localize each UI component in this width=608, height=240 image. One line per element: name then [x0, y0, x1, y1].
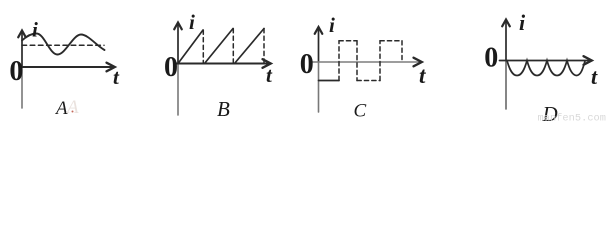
- svg-text:t: t: [419, 63, 426, 88]
- svg-text:0: 0: [9, 56, 23, 87]
- svg-text:t: t: [266, 63, 273, 87]
- svg-text:i: i: [189, 10, 195, 34]
- svg-text:0: 0: [164, 52, 178, 83]
- svg-text:C: C: [354, 101, 367, 122]
- svg-text:0: 0: [484, 43, 498, 74]
- svg-text:manfen5.com: manfen5.com: [538, 113, 607, 125]
- svg-text:i: i: [329, 13, 335, 37]
- svg-text:A: A: [54, 98, 68, 119]
- svg-text:i: i: [32, 18, 38, 42]
- svg-text:A: A: [65, 97, 79, 118]
- svg-text:t: t: [591, 64, 598, 89]
- svg-text:i: i: [519, 10, 526, 35]
- svg-text:t: t: [113, 65, 120, 89]
- svg-text:0: 0: [300, 49, 314, 80]
- svg-text:B: B: [217, 97, 230, 121]
